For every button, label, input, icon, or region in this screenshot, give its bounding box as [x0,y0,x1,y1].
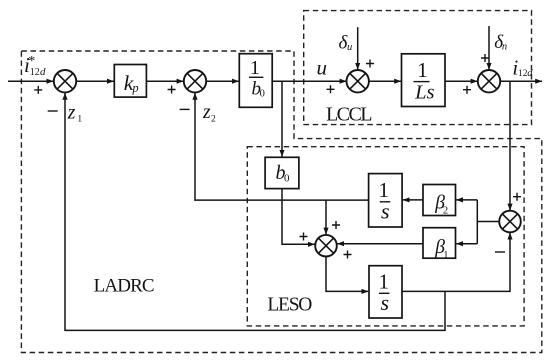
svg-text:LADRC: LADRC [94,275,155,296]
svg-text:s: s [381,199,390,224]
svg-text:0: 0 [260,89,265,100]
svg-text:p: p [131,81,138,95]
svg-text:1: 1 [250,57,260,79]
svg-text:z: z [202,102,211,123]
svg-text:s: s [381,290,390,315]
svg-text:*: * [28,54,35,69]
svg-text:1: 1 [77,115,82,125]
svg-text:Ls: Ls [414,82,434,104]
svg-text:0: 0 [284,173,290,185]
svg-text:2: 2 [211,114,216,124]
svg-text:n: n [502,42,507,53]
svg-text:LCCL: LCCL [326,104,373,126]
svg-text:d: d [527,68,533,79]
svg-text:z: z [67,102,76,123]
svg-text:1: 1 [443,250,448,261]
svg-text:u: u [317,56,328,80]
svg-text:1: 1 [417,58,428,82]
svg-text:u: u [347,42,352,53]
svg-text:d: d [40,66,46,78]
svg-text:LESO: LESO [267,295,312,316]
svg-text:2: 2 [443,206,448,217]
